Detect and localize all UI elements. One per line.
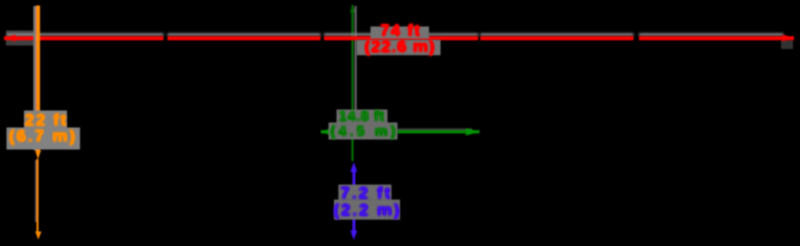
svg-text:(2.2 m): (2.2 m) bbox=[334, 200, 400, 219]
svg-text:(22.6 m): (22.6 m) bbox=[365, 37, 435, 56]
svg-text:(4.5 m): (4.5 m) bbox=[331, 124, 396, 140]
svg-text:14.8 ft: 14.8 ft bbox=[339, 109, 385, 125]
svg-text:(6.7 m): (6.7 m) bbox=[9, 127, 75, 146]
